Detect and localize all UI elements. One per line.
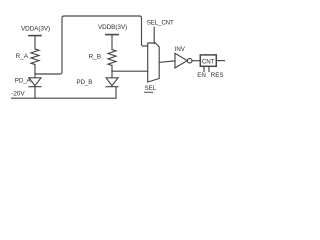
wire node A to mux input A [35,16,148,74]
svg-text:SEL: SEL [145,85,157,92]
svg-text:R_B: R_B [89,53,101,60]
wire -20V rail [12,97,117,99]
wire node B to mux input B [112,70,148,72]
photodiode PD_B label [77,79,93,86]
wire counter output [217,60,225,62]
svg-text:PD_B: PD_B [77,79,93,86]
supply VDDA bar symbol [29,35,41,37]
supply VDDA(3V) label [21,26,50,33]
wire R_A to node A [34,65,36,75]
wire R_B to node B [111,66,113,72]
svg-text:VDDA(3V): VDDA(3V) [21,26,50,33]
inverter INV label [175,46,186,53]
net SEL_CNT label [147,20,174,27]
supply VDDB bar symbol [106,34,118,36]
wire SEL_CNT to mux select [153,27,155,43]
photodiode PD_A [29,74,41,98]
supply VDDB(3V) label [98,24,127,31]
resistor R_A [31,49,39,65]
counter RES pin label [211,72,224,79]
svg-text:VDDB(3V): VDDB(3V) [98,24,127,31]
counter CNT box [200,55,216,66]
resistor R_A label [16,53,29,60]
svg-text:CNT: CNT [202,58,215,65]
svg-text:-20V: -20V [11,91,25,98]
resistor R_B label [89,53,101,60]
wire counter EN pin [203,66,205,71]
photodiode PD_B [106,71,118,98]
net -20V label [11,91,25,98]
counter EN pin label [197,72,206,79]
wire mux output to inverter [159,61,175,63]
svg-text:EN: EN [197,72,206,79]
wire VDDB to R_B [111,35,113,49]
wire VDDA to R_A [34,36,36,49]
inverter U2 [175,53,192,68]
svg-text:RES: RES [211,72,224,79]
svg-text:R_A: R_A [16,53,29,60]
svg-text:INV: INV [175,46,186,53]
svg-text:SEL_CNT: SEL_CNT [147,20,174,27]
photodiode PD_A label [15,77,32,84]
mux SEL pin label [145,85,157,92]
wire counter RES pin [208,66,210,71]
wire inverter to counter [192,60,200,62]
resistor R_B [108,50,116,66]
mux U1 [148,43,160,82]
